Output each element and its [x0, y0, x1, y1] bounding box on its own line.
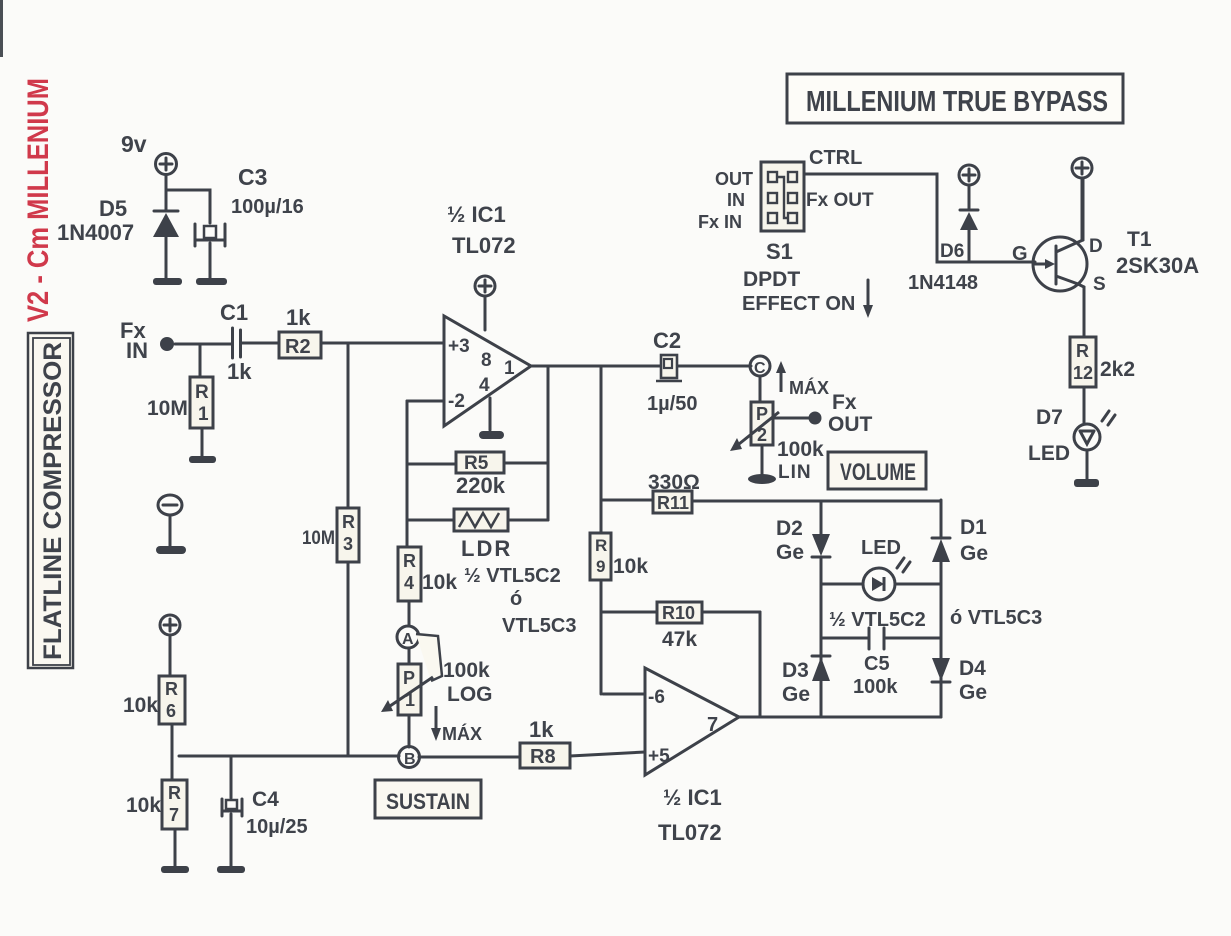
- svg-text:+5: +5: [648, 746, 670, 767]
- svg-text:8: 8: [481, 350, 492, 371]
- svg-text:D4: D4: [959, 657, 986, 680]
- svg-text:Ge: Ge: [782, 683, 810, 706]
- svg-text:D6: D6: [940, 241, 964, 262]
- svg-text:½ IC1: ½ IC1: [447, 202, 506, 227]
- svg-text:C4: C4: [252, 788, 279, 811]
- svg-text:D3: D3: [782, 659, 809, 682]
- svg-text:3: 3: [343, 534, 353, 554]
- svg-text:6: 6: [166, 701, 176, 721]
- svg-text:R: R: [595, 536, 607, 555]
- svg-text:Fx IN: Fx IN: [698, 212, 742, 232]
- svg-text:+3: +3: [448, 336, 470, 357]
- svg-text:B: B: [404, 751, 416, 768]
- svg-text:D2: D2: [776, 517, 803, 540]
- svg-text:C5: C5: [864, 653, 890, 675]
- svg-text:9: 9: [596, 557, 605, 576]
- svg-text:LED: LED: [1028, 442, 1070, 465]
- svg-text:D7: D7: [1036, 406, 1063, 429]
- svg-text:C3: C3: [238, 164, 267, 190]
- svg-text:ó VTL5C3: ó VTL5C3: [950, 607, 1042, 629]
- svg-text:10M: 10M: [302, 528, 335, 549]
- svg-text:10M: 10M: [147, 397, 188, 420]
- svg-text:-6: -6: [648, 687, 665, 708]
- svg-text:IN: IN: [126, 338, 148, 363]
- svg-text:P: P: [403, 668, 415, 688]
- svg-text:EFFECT ON: EFFECT ON: [742, 293, 855, 315]
- svg-text:S1: S1: [766, 239, 793, 264]
- svg-text:½ IC1: ½ IC1: [663, 785, 722, 810]
- svg-text:1N4148: 1N4148: [908, 272, 978, 294]
- svg-text:½ VTL5C2: ½ VTL5C2: [464, 565, 561, 587]
- svg-text:C2: C2: [653, 328, 681, 353]
- svg-text:G: G: [1012, 243, 1028, 265]
- svg-text:10k: 10k: [126, 794, 161, 817]
- svg-text:1µ/50: 1µ/50: [647, 393, 697, 415]
- svg-text:LDR: LDR: [461, 536, 512, 561]
- svg-text:12: 12: [1073, 363, 1093, 383]
- svg-text:CTRL: CTRL: [809, 147, 862, 169]
- svg-text:SUSTAIN: SUSTAIN: [386, 789, 470, 814]
- svg-text:10k: 10k: [613, 555, 648, 578]
- svg-text:1k: 1k: [529, 717, 554, 742]
- svg-text:Ge: Ge: [776, 541, 804, 564]
- svg-text:2SK30A: 2SK30A: [1116, 253, 1199, 278]
- svg-text:MÁX: MÁX: [442, 723, 482, 744]
- svg-text:7: 7: [707, 714, 718, 736]
- svg-text:4: 4: [404, 573, 414, 593]
- svg-text:MILLENIUM TRUE BYPASS: MILLENIUM TRUE BYPASS: [806, 86, 1108, 118]
- svg-text:100k: 100k: [443, 659, 490, 682]
- svg-text:OUT: OUT: [715, 169, 753, 189]
- svg-text:4: 4: [479, 375, 490, 396]
- svg-text:R: R: [1076, 341, 1089, 361]
- svg-text:D1: D1: [960, 516, 987, 539]
- svg-text:LED: LED: [861, 537, 901, 559]
- svg-text:VTL5C3: VTL5C3: [502, 615, 576, 637]
- svg-text:Ge: Ge: [959, 681, 987, 704]
- svg-text:220k: 220k: [456, 473, 506, 498]
- svg-text:LOG: LOG: [447, 683, 493, 706]
- svg-text:330Ω: 330Ω: [648, 471, 700, 494]
- svg-text:1k: 1k: [227, 359, 252, 384]
- svg-text:MÁX: MÁX: [789, 377, 829, 398]
- svg-text:100k: 100k: [853, 676, 898, 698]
- svg-text:D: D: [1089, 236, 1103, 257]
- svg-text:10µ/25: 10µ/25: [246, 816, 308, 838]
- svg-text:10k: 10k: [123, 694, 158, 717]
- svg-text:47k: 47k: [662, 628, 697, 651]
- svg-text:TL072: TL072: [452, 233, 516, 258]
- svg-text:TL072: TL072: [658, 820, 722, 845]
- svg-text:1: 1: [504, 358, 515, 379]
- svg-text:S: S: [1093, 274, 1106, 295]
- svg-text:1N4007: 1N4007: [57, 220, 134, 245]
- svg-text:D5: D5: [99, 196, 127, 221]
- svg-text:C: C: [754, 360, 766, 377]
- svg-text:R10: R10: [662, 603, 695, 623]
- svg-text:OUT: OUT: [828, 413, 873, 436]
- svg-text:R8: R8: [530, 746, 556, 768]
- svg-text:R: R: [168, 783, 181, 803]
- svg-text:Fx: Fx: [832, 391, 857, 414]
- svg-text:VOLUME: VOLUME: [840, 459, 916, 486]
- svg-text:DPDT: DPDT: [743, 268, 800, 291]
- svg-text:R5: R5: [464, 453, 489, 474]
- svg-text:100µ/16: 100µ/16: [231, 196, 304, 218]
- svg-text:Ge: Ge: [960, 542, 988, 565]
- svg-text:9v: 9v: [121, 131, 147, 157]
- svg-text:10k: 10k: [422, 571, 457, 594]
- svg-text:½ VTL5C2: ½ VTL5C2: [829, 609, 926, 631]
- svg-text:FLATLINE COMPRESSOR: FLATLINE COMPRESSOR: [39, 342, 67, 660]
- svg-text:ó: ó: [510, 588, 522, 610]
- svg-text:Fx OUT: Fx OUT: [806, 190, 874, 211]
- svg-text:R: R: [342, 512, 355, 532]
- svg-text:R2: R2: [285, 336, 311, 358]
- svg-text:IN: IN: [727, 190, 745, 210]
- svg-text:R11: R11: [657, 493, 689, 513]
- svg-text:C1: C1: [220, 300, 248, 325]
- svg-text:R: R: [165, 679, 178, 699]
- svg-text:2k2: 2k2: [1100, 358, 1135, 381]
- svg-text:R: R: [195, 382, 209, 403]
- svg-text:LIN: LIN: [778, 462, 812, 483]
- svg-text:V2 - Cm MILLENIUM: V2 - Cm MILLENIUM: [22, 78, 55, 322]
- svg-text:A: A: [402, 631, 414, 648]
- svg-text:R: R: [403, 551, 416, 571]
- svg-text:-2: -2: [448, 391, 465, 412]
- svg-text:100k: 100k: [777, 438, 824, 461]
- svg-text:7: 7: [169, 805, 179, 825]
- svg-text:1: 1: [198, 404, 209, 425]
- svg-text:T1: T1: [1127, 228, 1152, 251]
- svg-text:1k: 1k: [286, 305, 311, 330]
